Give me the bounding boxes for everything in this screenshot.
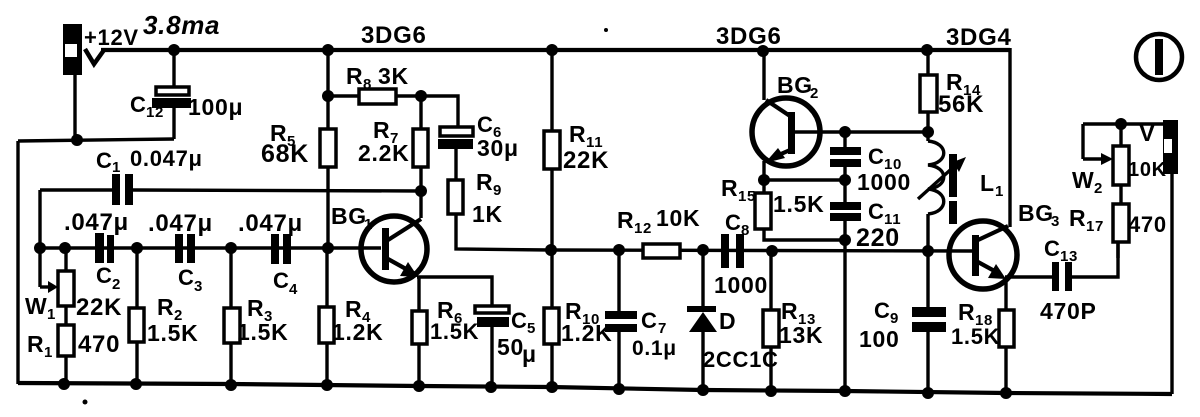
svg-text:C: C bbox=[96, 263, 113, 288]
wire BG1 emitter to C5 bbox=[417, 277, 492, 306]
resistor R15 bbox=[755, 180, 845, 240]
svg-text:1: 1 bbox=[995, 183, 1004, 200]
svg-text:9: 9 bbox=[493, 182, 502, 199]
junction C5 ground bbox=[485, 381, 497, 393]
wire feedback horizontal to C1 bbox=[40, 188, 112, 191]
svg-text:2.2K: 2.2K bbox=[358, 140, 409, 166]
junction R2 ground bbox=[130, 378, 142, 390]
node C10/C11 junction bbox=[839, 174, 851, 186]
svg-text:1.5K: 1.5K bbox=[430, 319, 479, 344]
svg-text:50: 50 bbox=[497, 334, 524, 360]
svg-text:C: C bbox=[868, 199, 885, 224]
svg-text:100μ: 100μ bbox=[188, 94, 243, 120]
capacitor C11 bbox=[830, 180, 861, 240]
svg-text:C: C bbox=[96, 148, 113, 173]
capacitor C6 bbox=[438, 127, 473, 180]
transistor BG2 bbox=[752, 98, 820, 166]
svg-text:13K: 13K bbox=[779, 322, 823, 348]
node R8 left junction bbox=[322, 90, 334, 102]
wire BG1 emitter to R6 bbox=[417, 277, 420, 311]
svg-text:470P: 470P bbox=[1040, 298, 1097, 324]
node feedback/ladder junction bbox=[34, 242, 46, 254]
svg-text:68K: 68K bbox=[261, 140, 309, 168]
svg-text:.047μ: .047μ bbox=[148, 210, 213, 237]
transistor BG3 bbox=[949, 221, 1017, 289]
resistor R10 bbox=[544, 308, 559, 387]
wire input ladder (base line of BG1) bbox=[40, 246, 381, 249]
svg-text:C: C bbox=[725, 210, 742, 235]
svg-text:.047μ: .047μ bbox=[64, 209, 129, 236]
svg-text:R: R bbox=[346, 63, 363, 89]
resistor R14 bbox=[920, 50, 937, 132]
node R14 branch at rail bbox=[921, 44, 933, 56]
junction C11 ground bbox=[839, 385, 851, 397]
svg-text:W: W bbox=[25, 293, 47, 319]
capacitor C3 bbox=[175, 234, 195, 263]
svg-text:C: C bbox=[1044, 236, 1061, 261]
svg-text:3: 3 bbox=[194, 278, 203, 295]
svg-text:8: 8 bbox=[741, 222, 750, 239]
svg-text:3DG6: 3DG6 bbox=[361, 22, 427, 49]
node C11/R15 junction bbox=[839, 234, 851, 246]
wire C13 to R17 bbox=[1072, 242, 1118, 277]
svg-text:BG: BG bbox=[777, 72, 813, 98]
svg-text:C: C bbox=[874, 298, 891, 323]
wire +12V top rail bbox=[101, 48, 1010, 52]
capacitor C12 bbox=[152, 50, 191, 139]
svg-text:0.1μ: 0.1μ bbox=[632, 337, 677, 360]
capacitor C4 bbox=[271, 234, 291, 264]
svg-text:470: 470 bbox=[78, 331, 120, 358]
svg-text:1: 1 bbox=[112, 159, 121, 176]
svg-text:3DG4: 3DG4 bbox=[946, 24, 1012, 51]
svg-text:2CC1C: 2CC1C bbox=[703, 347, 779, 372]
svg-text:3.8ma: 3.8ma bbox=[143, 10, 220, 40]
node BG2 collector at rail bbox=[757, 45, 769, 57]
wire C12 bottom to left edge bbox=[18, 139, 174, 141]
output jack V bbox=[1163, 120, 1178, 174]
svg-text:R: R bbox=[781, 298, 798, 324]
resistor R5 bbox=[320, 129, 336, 248]
resistor R8 bbox=[328, 89, 421, 104]
svg-text:13: 13 bbox=[1060, 248, 1078, 265]
svg-text:5: 5 bbox=[527, 320, 536, 337]
svg-text:.047μ: .047μ bbox=[238, 210, 303, 237]
node R11 branch at top rail bbox=[546, 44, 558, 56]
svg-text:3: 3 bbox=[1051, 213, 1060, 230]
svg-text:C: C bbox=[511, 308, 528, 333]
svg-text:3K: 3K bbox=[378, 63, 409, 89]
capacitor C5 bbox=[475, 306, 509, 388]
svg-text:12: 12 bbox=[146, 104, 164, 121]
svg-text:10K: 10K bbox=[656, 205, 700, 231]
wire right edge down to ground rail bbox=[1170, 174, 1173, 394]
svg-text:1K: 1K bbox=[472, 201, 503, 227]
svg-text:220: 220 bbox=[856, 224, 900, 252]
capacitor C1 bbox=[112, 174, 133, 205]
transistor BG1 bbox=[361, 216, 427, 282]
node R13 junction bbox=[766, 245, 778, 257]
svg-text:R: R bbox=[721, 175, 738, 201]
resistor R3 bbox=[224, 248, 240, 385]
junction C7 ground bbox=[613, 383, 625, 395]
svg-text:C: C bbox=[477, 112, 494, 137]
node W1 top junction bbox=[59, 242, 71, 254]
svg-text:R: R bbox=[1069, 205, 1086, 231]
svg-text:22K: 22K bbox=[563, 147, 609, 174]
svg-text:8: 8 bbox=[363, 76, 372, 93]
wire feedback from W1 wiper node up bbox=[38, 190, 41, 248]
svg-text:1.5K: 1.5K bbox=[237, 319, 288, 345]
svg-text:22K: 22K bbox=[76, 294, 122, 321]
wire W2 top bbox=[1083, 122, 1164, 125]
svg-text:10K: 10K bbox=[1128, 159, 1167, 181]
wire BG3 emitter to C13 bbox=[1005, 275, 1052, 278]
svg-text:1.2K: 1.2K bbox=[561, 320, 612, 346]
svg-text:2: 2 bbox=[1094, 180, 1103, 197]
svg-text:2: 2 bbox=[112, 276, 121, 293]
resistor R12 bbox=[643, 244, 680, 258]
node BG3 base junction bbox=[922, 245, 934, 257]
svg-text:BG: BG bbox=[1018, 200, 1054, 226]
svg-text:1: 1 bbox=[44, 344, 53, 361]
svg-text:7: 7 bbox=[658, 320, 667, 337]
wire rail down to R11 bbox=[550, 50, 553, 131]
node collector / feedback junction bbox=[415, 185, 427, 197]
wire ground rail bbox=[18, 383, 1172, 394]
node C12 at top rail bbox=[168, 44, 180, 56]
diode D 2CC1C bbox=[687, 250, 717, 391]
svg-text:W: W bbox=[1072, 167, 1094, 193]
junction R4 ground bbox=[321, 379, 333, 391]
svg-text:15: 15 bbox=[738, 188, 756, 205]
svg-text:4: 4 bbox=[289, 281, 298, 298]
svg-text:C: C bbox=[868, 144, 885, 169]
resistor R6 bbox=[412, 311, 427, 387]
svg-text:R: R bbox=[247, 295, 264, 321]
svg-text:R: R bbox=[617, 207, 634, 233]
junction R3 ground bbox=[225, 379, 237, 391]
svg-text:12: 12 bbox=[634, 220, 652, 237]
svg-text:1: 1 bbox=[47, 306, 56, 323]
inductor L1 bbox=[918, 132, 966, 251]
wire jack lead down bbox=[73, 75, 76, 139]
resistor R1 bbox=[58, 325, 74, 384]
wire emitter to C10/C11 node bbox=[764, 178, 845, 181]
capacitor C7 bbox=[605, 250, 637, 389]
potentiometer W2 bbox=[1113, 124, 1129, 204]
svg-text:30μ: 30μ bbox=[477, 135, 519, 161]
resistor R13 bbox=[763, 251, 779, 392]
resistor R11 bbox=[544, 131, 560, 308]
capacitor C10 bbox=[830, 132, 861, 180]
speck above mid wire bbox=[604, 28, 608, 32]
svg-text:9: 9 bbox=[890, 310, 899, 327]
wire R8 right to C6 bbox=[421, 96, 458, 127]
resistor R18 bbox=[999, 310, 1014, 393]
svg-text:2: 2 bbox=[810, 85, 819, 102]
resistor R17 bbox=[1113, 204, 1129, 258]
wire C11 node down to ground bbox=[843, 240, 846, 391]
wire mid line stage2 to BG3 base bbox=[551, 250, 972, 251]
svg-text:R: R bbox=[569, 121, 586, 147]
svg-text:C: C bbox=[130, 92, 147, 117]
svg-text:56K: 56K bbox=[938, 91, 984, 118]
wire BG2 base to C10 bbox=[795, 130, 928, 133]
svg-text:R: R bbox=[157, 294, 174, 320]
node R5 branch at top rail bbox=[322, 44, 334, 56]
node base/C10 junction bbox=[839, 126, 851, 138]
svg-text:1: 1 bbox=[364, 216, 373, 233]
speck below ground rail bbox=[83, 400, 88, 405]
resistor R2 bbox=[129, 248, 144, 385]
svg-text:C: C bbox=[641, 308, 658, 333]
junction R18 ground bbox=[1000, 387, 1012, 399]
svg-text:L: L bbox=[980, 170, 995, 196]
svg-text:1000: 1000 bbox=[857, 169, 911, 195]
svg-text:17: 17 bbox=[1086, 218, 1104, 235]
svg-text:+12V: +12V bbox=[84, 25, 139, 50]
svg-text:R: R bbox=[476, 169, 493, 195]
junction diode ground bbox=[697, 384, 709, 396]
svg-text:V: V bbox=[1139, 120, 1156, 147]
svg-text:1.5K: 1.5K bbox=[773, 191, 824, 217]
power input jack +12V bbox=[63, 24, 82, 75]
junction R6 ground bbox=[413, 380, 425, 392]
node R5/R4 base junction bbox=[322, 242, 334, 254]
svg-text:1.5K: 1.5K bbox=[951, 324, 1000, 349]
wire left vertical down to ground rail bbox=[16, 141, 19, 384]
junction R13 ground bbox=[765, 385, 777, 397]
svg-text:R: R bbox=[958, 299, 975, 325]
junction C9 ground bbox=[922, 387, 934, 399]
node stage2 input junction bbox=[545, 244, 557, 256]
resistor R7 bbox=[413, 96, 428, 218]
svg-text:470: 470 bbox=[1128, 212, 1167, 237]
junction R1 ground bbox=[58, 378, 70, 390]
node W2 wiper junction bbox=[1115, 118, 1127, 130]
svg-text:100: 100 bbox=[859, 326, 899, 352]
svg-text:D: D bbox=[719, 308, 736, 334]
node C7 junction bbox=[613, 244, 625, 256]
wire W2 wiper arm bbox=[1083, 124, 1113, 165]
node jack / C12 return junction bbox=[71, 134, 83, 146]
svg-text:BG: BG bbox=[331, 203, 367, 229]
node diode junction bbox=[697, 244, 709, 256]
wire C1 right to collector node bbox=[133, 190, 421, 191]
svg-text:μ: μ bbox=[522, 341, 537, 367]
wire rail corner down to BG3 collector bbox=[1008, 48, 1011, 227]
svg-text:C: C bbox=[273, 268, 290, 293]
junction R10 ground bbox=[546, 381, 558, 393]
wire BG3 emitter to R18 bbox=[1004, 278, 1007, 310]
capacitor C2 bbox=[95, 233, 114, 263]
svg-text:3DG6: 3DG6 bbox=[716, 23, 782, 50]
wire BG2 emitter down bbox=[762, 161, 765, 180]
resistor R4 bbox=[319, 248, 334, 386]
node R3 junction bbox=[225, 242, 237, 254]
circled figure number 1 bbox=[1136, 34, 1182, 80]
resistor R9 bbox=[448, 180, 550, 250]
node R2 junction bbox=[131, 242, 143, 254]
svg-text:1000: 1000 bbox=[714, 272, 768, 298]
capacitor C13 bbox=[1052, 262, 1072, 291]
wire W1 wiper bbox=[40, 248, 58, 293]
node R14/L1 junction bbox=[922, 126, 934, 138]
potentiometer W1 bbox=[58, 248, 74, 325]
node R7 top junction bbox=[415, 90, 427, 102]
wire check mark at rail start bbox=[85, 49, 104, 64]
wire rail down to R8/R5 junction bbox=[326, 50, 329, 129]
svg-text:1.5K: 1.5K bbox=[147, 320, 198, 346]
svg-text:R: R bbox=[27, 331, 44, 357]
capacitor C9 bbox=[912, 251, 946, 393]
svg-text:0.047μ: 0.047μ bbox=[130, 146, 203, 171]
wire BG2 collector to rail bbox=[762, 51, 765, 100]
svg-text:C: C bbox=[178, 265, 195, 290]
node BG2 emitter junction bbox=[758, 174, 770, 186]
svg-text:1.2K: 1.2K bbox=[332, 319, 383, 345]
capacitor C8 bbox=[721, 234, 744, 268]
